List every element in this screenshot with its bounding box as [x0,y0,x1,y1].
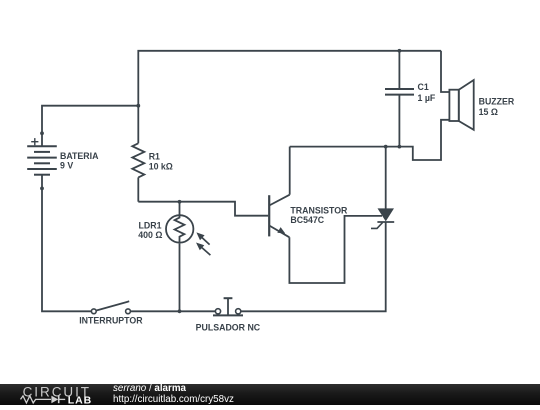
svg-text:LAB: LAB [68,394,92,405]
wire switch to pushbutton [130,310,215,312]
junction dot R1 top [136,104,140,108]
pushbutton stem [227,298,229,315]
battery B1 plates [27,146,57,175]
wire base net [138,202,268,216]
svg-text:10 kΩ: 10 kΩ [149,161,173,171]
svg-text:C1: C1 [418,82,429,92]
SCR cathode bar [377,221,394,223]
svg-text:TRANSISTOR: TRANSISTOR [290,206,348,216]
buzzer driver rectangle [449,90,458,121]
LDR arrow 2 [196,243,210,256]
wire R1 bottom lead [137,177,139,201]
junction dot battery bottom [40,187,44,191]
LDR arrow 1 [196,232,209,244]
wire emitter loop [289,216,382,283]
wire SCR anode lead [385,147,387,209]
pushbutton NC bar [213,314,243,316]
junction dot C1 bottom [398,145,402,149]
junction dot LDR bottom [178,309,182,313]
svg-text:BATERIA: BATERIA [60,151,99,161]
photoresistor LDR1 circle [166,215,193,242]
junction dot C1 top [398,49,402,53]
circuitlab logo [0,384,120,405]
pushbutton right contact [236,309,241,314]
pushbutton left contact [215,309,220,314]
wire buzzer top lead [441,51,449,92]
svg-text:PULSADOR NC: PULSADOR NC [196,322,261,332]
svg-text:R1: R1 [149,152,160,162]
wire C1 bottom lead [398,95,400,147]
wire collector up [289,147,291,195]
wire R1 top lead [137,106,139,144]
capacitor C1 plates [385,89,414,95]
svg-text:15 Ω: 15 Ω [479,107,498,117]
wire R1 branch up to top rail [138,51,441,106]
wire bottom rail left [42,188,92,311]
junction dot SCR anode [384,145,388,149]
wire C1 top lead [398,51,400,89]
buzzer cone [459,80,474,130]
wire battery top to rail [42,106,138,146]
junction dot battery top [40,131,44,135]
wire LDR bottom lead [179,244,181,312]
svg-text:BC547C: BC547C [290,215,324,225]
battery plus sign [31,138,38,145]
wire buzzer bottom lead [290,120,450,160]
battery B1 bottom lead [41,175,43,189]
junction dot LDR top [178,200,182,204]
switch right contact [126,309,131,314]
svg-text:LDR1: LDR1 [139,220,162,230]
switch left contact [91,309,96,314]
emitter arrowhead [277,227,285,233]
transistor Q1 collector diagonal [269,195,290,206]
resistor R1 [132,143,144,177]
svg-text:INTERRUPTOR: INTERRUPTOR [79,316,143,326]
wire SCR cathode down to rail and to pushbutton [241,222,386,312]
pushbutton cap [224,297,233,299]
transistor Q1 base bar [268,195,270,236]
svg-text:400 Ω: 400 Ω [138,230,162,240]
svg-text:1 µF: 1 µF [418,93,436,103]
footer bar [0,384,540,405]
svg-text:9 V: 9 V [60,161,73,171]
transistor Q1 emitter diagonal [269,226,289,238]
photoresistor LDR1 zigzag [175,202,185,244]
svg-text:BUZZER: BUZZER [479,96,515,106]
SCR triangle [379,209,393,220]
SCR gate tail [371,223,383,229]
switch blade [96,301,129,310]
